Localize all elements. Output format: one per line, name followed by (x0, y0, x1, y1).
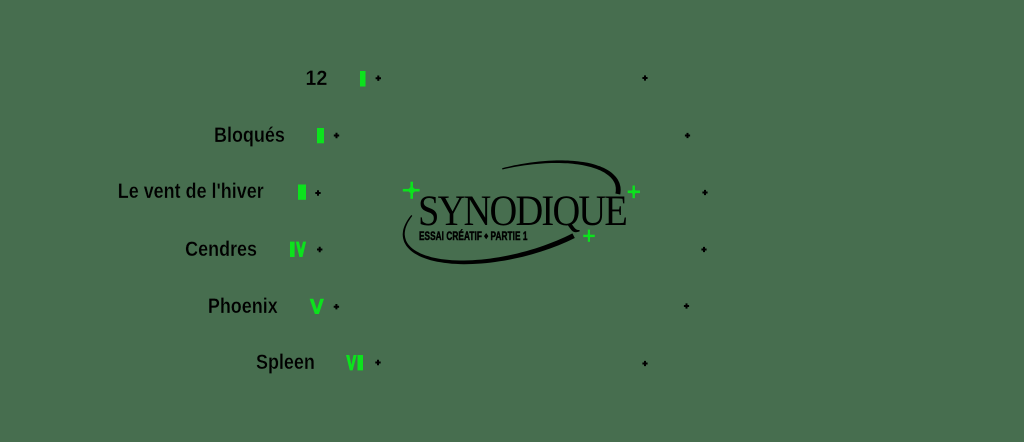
logo wordmark SYNODIQUE (418, 191, 626, 231)
sparkle left (403, 182, 420, 199)
roman numeral IV (row 4) (290, 242, 306, 257)
orbit swoosh top arc (502, 160, 621, 194)
left dot row 3 (315, 190, 320, 195)
roman numeral II (row 2) (317, 128, 324, 143)
chapter label Cendres (185, 240, 257, 260)
right dot row 2 (685, 133, 690, 138)
left dot row 1 (376, 76, 381, 81)
roman numeral I (row 1) (360, 71, 366, 87)
sparkle bottom (583, 230, 595, 242)
right dot row 5 (684, 303, 689, 308)
chapter label Bloqués (214, 126, 285, 146)
roman numeral III (row 3) (298, 185, 306, 200)
chapter label 12 (305, 69, 327, 89)
right dot row 1 (642, 75, 647, 80)
chapter label Le vent de l'hiver (118, 182, 264, 202)
chapter label Spleen (256, 353, 315, 373)
left dot row 6 (375, 360, 380, 365)
sparkle right (628, 186, 640, 199)
left dot row 4 (317, 247, 322, 252)
roman numeral VI (row 6) (346, 355, 363, 370)
chapter label Phoenix (208, 297, 278, 317)
roman numeral V (row 5) (310, 299, 324, 314)
right dot row 3 (702, 190, 707, 195)
left dot row 5 (334, 304, 339, 309)
left dot row 2 (334, 133, 339, 138)
right dot row 4 (701, 247, 706, 252)
right dot row 6 (642, 361, 647, 366)
logo subtitle ESSAI CRÉATIF - PARTIE 1 (419, 232, 528, 244)
orbit swoosh bottom arc (403, 215, 575, 264)
